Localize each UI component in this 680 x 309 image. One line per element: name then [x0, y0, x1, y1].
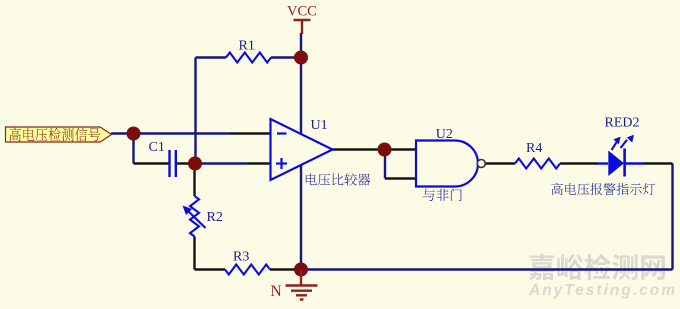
svg-text:R1: R1	[239, 39, 255, 54]
resistor R1	[226, 53, 271, 63]
U2 output bubble	[477, 160, 485, 168]
nand gate U2	[416, 141, 478, 187]
svg-text:U1: U1	[311, 118, 328, 133]
wire R2 bottom to R3	[195, 237, 226, 270]
junction node plus input	[188, 157, 202, 171]
wire plus node down to R2	[193, 164, 195, 197]
svg-text:R2: R2	[207, 210, 223, 225]
wire node B to U2 input 1	[385, 148, 417, 150]
junction node VCC/R1	[294, 51, 308, 65]
junction node A input	[127, 127, 141, 141]
resistor R2 (variable)	[190, 196, 199, 237]
wire input flag to node A	[111, 132, 134, 134]
svg-text:C1: C1	[149, 140, 165, 155]
wire R3 to ground node	[270, 268, 301, 270]
wire LED to right corner	[625, 162, 673, 164]
ground N symbol	[286, 270, 318, 300]
wire node A to opamp minus input	[134, 132, 271, 134]
label 电压比较器	[306, 173, 371, 185]
svg-text:U2: U2	[436, 127, 453, 142]
wire U2 output to R4	[486, 162, 516, 164]
wire right vertical LED return	[671, 164, 673, 270]
wire node B down to U2 input 2	[385, 150, 416, 179]
svg-text:N: N	[271, 283, 282, 300]
op-amp U1	[271, 119, 333, 180]
svg-text:R3: R3	[233, 250, 249, 265]
U1 minus input symbol	[277, 132, 287, 134]
junction node B opamp output	[378, 143, 392, 157]
svg-text:R4: R4	[526, 141, 542, 156]
LED arrow 1	[612, 142, 618, 151]
LED RED2	[608, 151, 624, 177]
wire R4 to LED	[560, 162, 608, 164]
wire opamp output to node B	[333, 148, 385, 150]
resistor R3	[225, 265, 270, 275]
wire node A down to C1	[134, 134, 170, 164]
wire VCC stem to node	[300, 33, 302, 58]
svg-text:AnyTesting.com: AnyTesting.com	[528, 282, 677, 299]
resistor R4	[515, 159, 560, 169]
watermark 嘉峪检测网	[529, 254, 665, 280]
wire plus node to opamp plus input	[195, 162, 271, 164]
capacitor C1	[170, 150, 176, 177]
LED arrow 2	[621, 140, 628, 148]
label 与非门	[423, 189, 462, 202]
wire C1 to plus node	[177, 162, 196, 164]
power VCC symbol	[294, 20, 311, 34]
port 高电压检测信号 flag	[6, 127, 112, 142]
wire ground node to right corner bottom	[301, 268, 673, 270]
svg-text:VCC: VCC	[287, 4, 317, 20]
junction node ground	[294, 263, 308, 277]
wire R1 left vertical to plus node	[194, 58, 196, 164]
wire opamp power vertical VCC to ground	[300, 58, 302, 270]
U1 plus input symbol	[276, 158, 287, 169]
svg-text:RED2: RED2	[605, 116, 640, 131]
wire R1 left horizontal	[196, 56, 302, 58]
label 高电压报警指示灯	[551, 183, 655, 195]
